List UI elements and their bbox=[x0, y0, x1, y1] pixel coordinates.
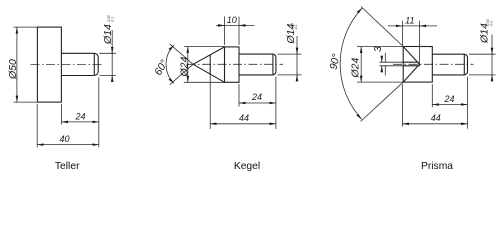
dim 10 arrows bbox=[217, 24, 225, 26]
v-groove slants bbox=[403, 47, 419, 83]
dim 3 extension lines bbox=[379, 62, 403, 66]
dim Ø14 extension lines bbox=[469, 54, 496, 75]
dim Ø14 extension lines bbox=[99, 53, 116, 75]
dim 24 extension lines bbox=[61, 77, 98, 147]
dim 24 extension lines bbox=[432, 77, 467, 129]
shaft end cap bbox=[464, 54, 467, 75]
svg-text:24: 24 bbox=[251, 92, 262, 102]
svg-text:24: 24 bbox=[443, 94, 454, 104]
svg-text:-0.1: -0.1 bbox=[110, 17, 114, 23]
dim Ø24 extension lines bbox=[184, 46, 228, 82]
shaft chamfer ring bbox=[272, 54, 274, 74]
centerline bbox=[393, 63, 474, 65]
shaft end cap bbox=[94, 53, 98, 75]
shaft bbox=[239, 54, 273, 75]
dim 44 extension line at tip plane bbox=[209, 72, 211, 129]
svg-text:44: 44 bbox=[239, 113, 249, 123]
svg-text:40: 40 bbox=[59, 134, 69, 144]
shaft chamfer ring bbox=[463, 54, 465, 74]
dim Ø14 extension lines bbox=[278, 54, 302, 75]
svg-text:Kegel: Kegel bbox=[234, 161, 260, 172]
60 degree arc bbox=[166, 45, 174, 83]
angle rays bbox=[361, 7, 404, 122]
svg-text:10: 10 bbox=[227, 15, 237, 25]
head cylinder bbox=[225, 47, 240, 82]
shaft chamfer ring bbox=[93, 54, 95, 76]
dim Ø14 tolerance bbox=[486, 19, 494, 26]
dim 3 arrows bbox=[381, 56, 383, 63]
svg-text:Ø24: Ø24 bbox=[178, 56, 190, 77]
dim Ø50 line bbox=[16, 27, 18, 102]
centerline bbox=[31, 63, 104, 65]
dim 24 line bbox=[239, 102, 276, 104]
svg-text:11: 11 bbox=[405, 16, 414, 26]
shaft end cap bbox=[273, 54, 276, 75]
dim 11 arrows bbox=[395, 25, 402, 27]
dim Ø14 line bbox=[111, 30, 113, 81]
dim 11 extension lines bbox=[402, 21, 419, 67]
cone outline bbox=[193, 47, 224, 82]
svg-text:24: 24 bbox=[74, 111, 85, 121]
cone tip plane edge bbox=[209, 55, 211, 74]
shaft bbox=[432, 54, 464, 75]
head cylinder bbox=[403, 47, 432, 83]
svg-text:Ø14: Ø14 bbox=[102, 24, 114, 45]
dim Ø24 extension lines bbox=[357, 47, 403, 83]
dim 3 line bbox=[384, 53, 386, 76]
disc top edge with extension bbox=[13, 26, 37, 28]
dim Ø14 line bbox=[491, 35, 493, 81]
90 degree arc bbox=[340, 8, 362, 120]
dim 40 extension line bbox=[36, 104, 38, 148]
svg-text:Teller: Teller bbox=[55, 161, 80, 172]
svg-text:3: 3 bbox=[372, 46, 384, 52]
svg-text:-0.1: -0.1 bbox=[294, 25, 298, 31]
dim Ø14 arrows bbox=[296, 48, 298, 55]
dim 44 extension line bbox=[401, 84, 403, 127]
svg-text:Prisma: Prisma bbox=[421, 161, 453, 172]
dim Ø14 arrows bbox=[111, 47, 113, 54]
dim 24 line bbox=[61, 121, 98, 123]
svg-text:Ø24: Ø24 bbox=[349, 57, 361, 78]
dim Ø14 tolerance bbox=[290, 23, 298, 30]
dim 40 line bbox=[37, 144, 99, 146]
disc bottom edge with extension bbox=[13, 101, 37, 103]
dim Ø24 line bbox=[360, 47, 362, 83]
dim 44 line bbox=[402, 123, 467, 125]
dim 24 extension line bbox=[239, 77, 276, 129]
dim Ø14 tolerance bbox=[107, 15, 115, 22]
dim Ø14 arrows bbox=[491, 48, 493, 55]
disc body bbox=[37, 27, 61, 102]
svg-text:44: 44 bbox=[431, 113, 441, 123]
dim Ø24 line bbox=[187, 46, 189, 82]
dim 11 line bbox=[388, 25, 437, 27]
angle rays beyond apex bbox=[170, 44, 193, 85]
dim 10 extension lines bbox=[225, 17, 240, 45]
svg-text:Ø50: Ø50 bbox=[7, 59, 19, 80]
centerline bbox=[187, 63, 284, 65]
dim 24 line bbox=[432, 104, 467, 106]
svg-text:-0.1: -0.1 bbox=[490, 21, 494, 27]
dim Ø14 line bbox=[296, 36, 298, 80]
slot lines bbox=[403, 62, 419, 66]
shaft bbox=[61, 53, 94, 75]
dim 44 line bbox=[210, 123, 276, 125]
dim 10 line bbox=[216, 24, 255, 26]
